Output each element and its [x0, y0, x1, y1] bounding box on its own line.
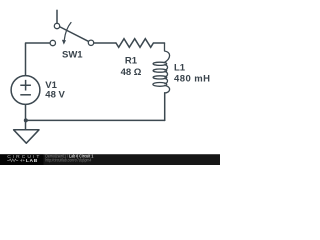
- node: junction dot at bottom rail: [24, 118, 28, 122]
- wire: SW1 right terminal to resistor R1: [94, 42, 117, 44]
- svg-text:48 Ω: 48 Ω: [121, 67, 142, 78]
- CircuitLab logo box: [0, 155, 44, 165]
- CircuitLab watermark footer bar: [0, 155, 220, 165]
- V1 minus sign: [20, 94, 31, 96]
- CircuitLab logo resistor squiggle: [7, 159, 18, 162]
- switch SW1 arrowhead: [62, 40, 66, 45]
- svg-text:L1: L1: [174, 63, 186, 74]
- switch SW1 top terminal: [54, 23, 59, 28]
- switch SW1 right terminal: [88, 40, 93, 45]
- wire: inductor bottom lead: [164, 93, 166, 121]
- svg-text:LAB: LAB: [26, 158, 38, 164]
- wire: bottom rail from node to inductor bottom: [26, 119, 165, 121]
- ground symbol: [14, 130, 39, 143]
- V1 plus sign: [20, 80, 31, 91]
- watermark text line 1: [45, 154, 94, 158]
- svg-text:480 mH: 480 mH: [174, 73, 211, 84]
- wire: switch top stub: [56, 10, 58, 23]
- svg-text:R1: R1: [125, 55, 138, 66]
- voltage source V1 circle: [11, 76, 40, 105]
- svg-text:48 V: 48 V: [45, 89, 65, 100]
- switch SW1 left terminal: [50, 40, 55, 45]
- switch SW1 action arc: [64, 23, 71, 40]
- svg-text:SW1: SW1: [62, 50, 83, 61]
- svg-text:http:⁄⁄circuitlab.com⁄c⁄7dq6pm: http:⁄⁄circuitlab.com⁄c⁄7dq6pm4: [45, 158, 91, 162]
- inductor L1 coil: [153, 43, 170, 93]
- watermark text line 2: [45, 158, 91, 162]
- wire: V1 top up to corner and right to SW1 left terminal: [26, 43, 51, 76]
- CircuitLab logo capacitor symbol: [20, 159, 24, 162]
- wire: V1 bottom down to bottom rail: [25, 104, 27, 129]
- resistor R1 zigzag: [116, 39, 165, 48]
- switch SW1 lever: [59, 27, 89, 42]
